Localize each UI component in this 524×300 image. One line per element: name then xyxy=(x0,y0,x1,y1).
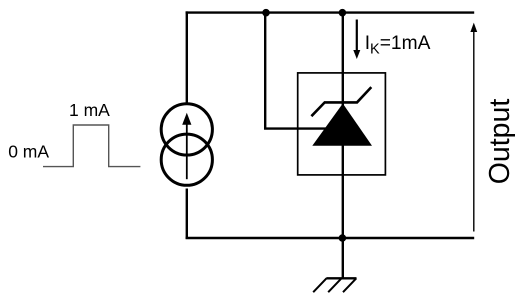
svg-text:1 mA: 1 mA xyxy=(69,100,110,120)
svg-text:0 mA: 0 mA xyxy=(8,142,49,162)
svg-text:Output: Output xyxy=(484,99,516,185)
